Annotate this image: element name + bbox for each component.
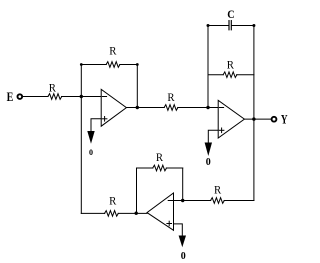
- svg-text:E: E: [7, 90, 14, 104]
- wire U1 plus input stub: [91, 119, 101, 132]
- wire C loop right vertical down to U2 output: [253, 26, 255, 120]
- U2 plus pin mark: [219, 129, 224, 131]
- junction dot U1 output node: [136, 106, 139, 109]
- ground arrow 1 (0V reference): [87, 131, 94, 144]
- output terminal Y: [272, 117, 277, 122]
- wire C loop top right segment: [232, 25, 254, 27]
- U3 plus pin mark: [167, 223, 172, 225]
- U1 minus pin mark: [102, 96, 106, 98]
- junction dot U2 output node: [252, 117, 255, 120]
- wire feedback top left segment: [81, 64, 106, 66]
- resistor R3: [164, 105, 178, 111]
- wire U1 output to R3: [126, 107, 164, 109]
- svg-text:0: 0: [206, 157, 211, 168]
- svg-text:R: R: [109, 46, 117, 58]
- junction dot C loop left corner: [207, 24, 210, 27]
- junction dot C loop right corner: [252, 24, 255, 27]
- wire R1 to op-amp U1 inverting input: [62, 96, 102, 98]
- node C junction dot: [181, 199, 184, 202]
- node B junction dot: [206, 106, 209, 109]
- wire U2 output to terminal Y: [244, 118, 271, 120]
- wire U3 plus input stub: [174, 224, 183, 236]
- svg-text:0: 0: [181, 251, 186, 262]
- op-amp U2: [218, 100, 244, 138]
- wire E terminal to R1: [23, 96, 48, 98]
- wire feedback top right segment: [120, 64, 138, 66]
- svg-text:0: 0: [89, 148, 93, 157]
- U1 plus pin mark: [102, 118, 107, 120]
- wire bottom right horizontal to R5: [224, 200, 254, 202]
- wire R4 feedback right segment: [237, 74, 254, 76]
- wire U2 plus input stub: [208, 130, 218, 143]
- wire R7 to left vertical: [81, 212, 104, 214]
- resistor R7: [105, 211, 119, 217]
- wire feedback down to U1 output: [136, 65, 138, 108]
- junction dot feedback R2 right corner: [136, 63, 139, 66]
- resistor R6 (feedback of U3): [153, 165, 167, 171]
- svg-text:R: R: [49, 82, 57, 94]
- resistor R5: [211, 198, 225, 204]
- U3 minus pin mark: [168, 200, 172, 202]
- wire feedback R6 down to U3 output: [136, 168, 138, 213]
- op-amp U1: [101, 89, 126, 126]
- svg-text:Y: Y: [281, 113, 288, 127]
- junction dot U3 output node: [135, 212, 138, 215]
- svg-text:R: R: [167, 92, 175, 104]
- resistor R1: [48, 94, 62, 100]
- wire R4 feedback left segment: [208, 74, 223, 76]
- junction dot feedback R2 left corner: [80, 63, 83, 66]
- svg-text:R: R: [156, 152, 164, 164]
- input terminal E: [18, 94, 23, 99]
- svg-text:R: R: [227, 60, 235, 72]
- wire node B up to capacitor loop: [207, 26, 209, 108]
- wire R5 to op-amp U3 inverting input: [174, 200, 211, 202]
- node A junction dot: [80, 95, 83, 98]
- svg-text:R: R: [214, 185, 222, 197]
- wire left vertical up to node A: [80, 97, 82, 214]
- wire U3 output to R7: [118, 212, 147, 214]
- svg-text:C: C: [227, 9, 234, 21]
- wire feedback R6 top right segment: [166, 167, 182, 169]
- resistor R2 (feedback of U1): [106, 62, 120, 68]
- wire R3 to op-amp U2 inverting input: [178, 107, 219, 109]
- capacitor C1: [228, 21, 230, 30]
- wire feedback R6 top left segment: [137, 167, 153, 169]
- ground arrow 3 (0V reference): [179, 236, 186, 248]
- wire node A up to feedback R2: [80, 65, 82, 97]
- ground arrow 2 (0V reference): [205, 143, 212, 157]
- resistor R4 (feedback of U2): [223, 72, 237, 78]
- op-amp U3 (left pointing): [147, 193, 174, 230]
- svg-text:R: R: [109, 195, 117, 207]
- wire U2 output down to bottom branch: [253, 119, 255, 200]
- wire C loop top left segment: [208, 25, 228, 27]
- wire node C up to feedback R6: [182, 168, 184, 201]
- U2 minus pin mark: [219, 107, 223, 109]
